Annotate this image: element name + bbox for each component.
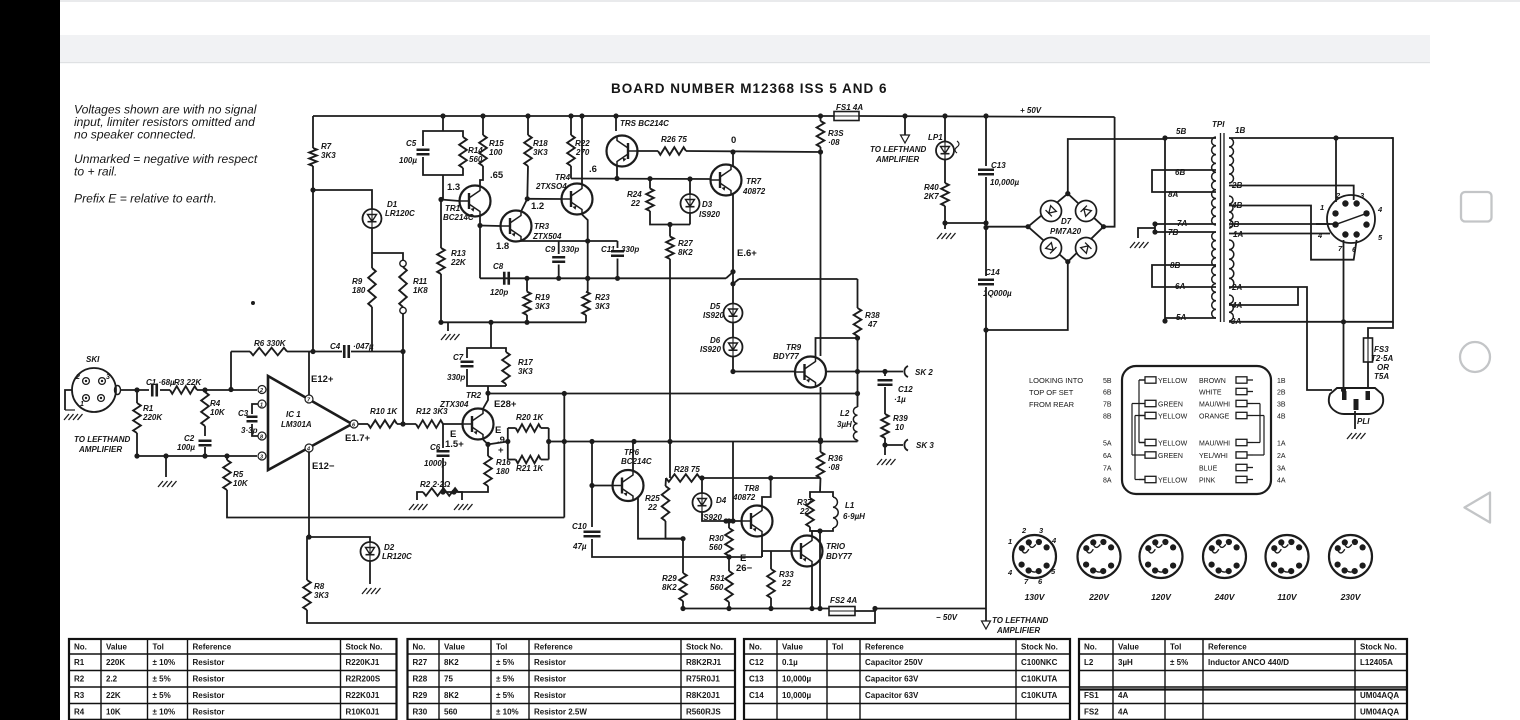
- svg-text:.65: .65: [490, 170, 504, 181]
- wire R36 to L1/R37: [819, 478, 822, 492]
- LP1 squiggle: [955, 141, 959, 153]
- svg-text:3A: 3A: [1277, 466, 1286, 473]
- transformer core: [1221, 133, 1225, 322]
- wire 0 node to TR7 collector: [732, 152, 734, 166]
- wire drive bus lower: [564, 441, 857, 443]
- wire junction: [505, 439, 510, 444]
- wire junction: [667, 222, 672, 227]
- svg-text:5: 5: [1051, 567, 1056, 576]
- wire 0 node down to TR9: [820, 152, 822, 356]
- SK1 pin dot: [100, 397, 102, 399]
- wire R38 to SK2 line: [857, 336, 859, 372]
- svg-text:5A: 5A: [1176, 313, 1186, 322]
- wire junction: [525, 196, 530, 201]
- svg-text:8A: 8A: [1168, 190, 1178, 199]
- svg-text:D2: D2: [384, 543, 395, 552]
- wire -50V rail left: [683, 608, 829, 610]
- selector plug pin 3: [1353, 200, 1359, 206]
- wire R39 to SK3: [884, 438, 886, 445]
- svg-text:Resistor: Resistor: [534, 675, 566, 684]
- inductor TP1 primary: [1212, 137, 1216, 318]
- wire junction: [1152, 229, 1157, 234]
- selector plug pin 7: [1342, 231, 1348, 237]
- svg-text:Stock No.: Stock No.: [346, 643, 383, 652]
- wire to feedback column: [549, 441, 565, 443]
- pot wiper top R11: [400, 260, 406, 266]
- svg-text:R29: R29: [413, 691, 428, 700]
- wire C1 to R3: [160, 389, 170, 391]
- svg-text:C13: C13: [991, 161, 1006, 170]
- wire rail to R35: [820, 116, 822, 121]
- svg-text:Reference: Reference: [534, 643, 573, 652]
- wire 1B down to plug pin2: [1335, 138, 1337, 202]
- svg-text:Resistor: Resistor: [534, 658, 566, 667]
- transistor TR2 ZTX304: [463, 409, 494, 440]
- wire feedback left: [231, 351, 250, 353]
- wire junction: [615, 276, 620, 281]
- svg-text:220K: 220K: [106, 658, 125, 667]
- resistor R5: [223, 460, 231, 490]
- svg-text:6·9µH: 6·9µH: [843, 512, 865, 521]
- wire junction: [579, 113, 584, 118]
- wire to TR3 base: [480, 225, 501, 228]
- svg-text:TO LEFTHAND: TO LEFTHAND: [74, 435, 131, 444]
- wire junction: [726, 606, 731, 611]
- wire junction: [983, 225, 988, 230]
- svg-text:3K3: 3K3: [314, 591, 329, 600]
- svg-text:C13: C13: [749, 675, 764, 684]
- resistor R19: [523, 292, 531, 315]
- wire junction: [817, 606, 822, 611]
- colour tab 7B: [1139, 400, 1156, 406]
- svg-text:0.1µ: 0.1µ: [782, 658, 798, 667]
- op-amp pin 3: [258, 452, 266, 460]
- svg-text:1: 1: [1008, 537, 1012, 546]
- capacitor C7: [461, 362, 474, 367]
- svg-text:TRS BC214C: TRS BC214C: [620, 119, 669, 128]
- wire junction: [546, 439, 551, 444]
- svg-text:1: 1: [260, 402, 263, 408]
- svg-text:Tol: Tol: [1170, 643, 1181, 652]
- wire D2 to ground: [369, 561, 371, 584]
- resistor R11: [399, 267, 407, 307]
- resistor R36: [817, 452, 825, 478]
- svg-text:R25: R25: [645, 494, 660, 503]
- svg-text:·1µ: ·1µ: [894, 395, 906, 404]
- svg-text:560: 560: [710, 583, 724, 592]
- wire: [541, 459, 549, 461]
- selector plug jumper: [1336, 213, 1367, 224]
- table resistors 1 grid: [69, 639, 397, 720]
- resistor R35: [817, 121, 825, 147]
- selector plug pin 1: [1332, 210, 1338, 216]
- wire to R37: [810, 492, 820, 498]
- svg-text:BDY77: BDY77: [773, 352, 799, 361]
- SK1 pin dot: [101, 380, 103, 382]
- svg-text:BOARD NUMBER M12368 ISS 5 AND: BOARD NUMBER M12368 ISS 5 AND 6: [611, 81, 888, 96]
- wire to R1: [136, 390, 138, 403]
- svg-text:2: 2: [75, 374, 80, 381]
- colour tab 5A: [1139, 439, 1156, 445]
- resistor R18: [524, 135, 532, 166]
- svg-text:L2: L2: [840, 409, 850, 418]
- arrow to lefthand amplifier bottom: [982, 621, 991, 629]
- ground mid: [441, 334, 460, 340]
- wire junction: [438, 320, 443, 325]
- svg-text:R19: R19: [535, 293, 550, 302]
- svg-text:Prefix E = relative to earth.: Prefix E = relative to earth.: [74, 192, 217, 206]
- wire to R36: [820, 440, 822, 452]
- svg-text:22: 22: [647, 503, 657, 512]
- wire junction: [568, 113, 573, 118]
- svg-text:− 50V: − 50V: [936, 613, 958, 622]
- wire D3 to TR7 base line: [689, 179, 691, 194]
- wire rail to TR4 collector: [581, 116, 583, 184]
- svg-text:± 5%: ± 5%: [153, 691, 171, 700]
- svg-text:YELLOW: YELLOW: [1158, 441, 1188, 448]
- wire C10 bottom to E26 node: [592, 539, 729, 557]
- wire D6 column down to TR8 base: [732, 442, 734, 522]
- wire junction: [855, 335, 860, 340]
- wire C12 to R39: [884, 387, 886, 414]
- wire to R5: [226, 456, 228, 460]
- svg-text:R27: R27: [678, 239, 693, 248]
- wire to R11 top: [372, 253, 403, 261]
- wire junction: [699, 475, 704, 480]
- wire E6 node to D5: [732, 284, 734, 304]
- wire junction: [310, 349, 315, 354]
- resistor R2: [423, 488, 458, 496]
- svg-text:E12+: E12+: [311, 374, 334, 385]
- wire junction: [306, 534, 311, 539]
- svg-text:R38: R38: [865, 311, 880, 320]
- svg-text:R2 2·2Ω: R2 2·2Ω: [420, 480, 451, 489]
- svg-text:Reference: Reference: [193, 643, 232, 652]
- svg-text:AMPLIFIER: AMPLIFIER: [78, 445, 122, 454]
- colour tab right 1A: [1236, 439, 1253, 445]
- svg-text:LM301A: LM301A: [281, 420, 312, 429]
- wire FS3 to PL1 right prong: [1367, 362, 1369, 388]
- wire R38 node down: [857, 372, 859, 394]
- wire D3 bottom: [689, 214, 691, 225]
- svg-text:130V: 130V: [1025, 592, 1046, 602]
- wire to -50V rail: [819, 531, 821, 609]
- svg-text:T5A: T5A: [1374, 372, 1389, 381]
- wire TR10 emitter to rail: [811, 566, 813, 609]
- wire to R37/L1 top: [771, 477, 821, 479]
- svg-text:3: 3: [260, 454, 263, 460]
- resistor R6: [250, 348, 287, 356]
- svg-text:Resistor: Resistor: [193, 708, 225, 717]
- svg-text:22: 22: [781, 579, 791, 588]
- capacitor C8: [504, 272, 509, 285]
- wire to C7: [467, 348, 487, 358]
- wire D4 to TR8 base: [702, 512, 741, 521]
- wire R24/D3 join: [650, 211, 690, 225]
- wire 1A to plug: [1326, 233, 1330, 235]
- connector SK1: [72, 368, 116, 412]
- svg-text:1.5+: 1.5+: [445, 439, 464, 450]
- wire junction: [983, 220, 988, 225]
- wire junction: [1065, 259, 1070, 264]
- diode D1 LR120C: [363, 209, 382, 228]
- transistor TR7 40872: [711, 165, 742, 196]
- svg-text:R28: R28: [413, 675, 428, 684]
- wire junction: [983, 113, 988, 118]
- wire C5 bottom: [423, 157, 443, 175]
- svg-text:BROWN: BROWN: [1199, 378, 1226, 385]
- svg-text:1.2: 1.2: [531, 201, 544, 212]
- wire C4 to feedback node: [351, 351, 403, 353]
- wire TR1 base to R13: [440, 200, 442, 249]
- svg-text:R17: R17: [518, 358, 533, 367]
- SK1 pin: [83, 395, 90, 402]
- svg-text:LR120C: LR120C: [385, 209, 415, 218]
- wire top rail left of FS1: [313, 115, 834, 117]
- svg-text:4B: 4B: [1277, 414, 1286, 421]
- wire junction: [855, 369, 860, 374]
- transistor TR10 BDY77: [792, 536, 823, 567]
- svg-text:FS1 4A: FS1 4A: [836, 103, 863, 112]
- wire to TR6 base: [592, 485, 612, 487]
- wire junction: [613, 113, 618, 118]
- svg-text:Resistor: Resistor: [193, 658, 225, 667]
- wire junction: [680, 606, 685, 611]
- colour box links right: [1253, 404, 1264, 456]
- wire TR5 emitter down: [616, 166, 618, 179]
- svg-text:R560RJS: R560RJS: [686, 708, 721, 717]
- svg-text:FS2: FS2: [1084, 708, 1099, 717]
- svg-text:T2·5A: T2·5A: [1371, 354, 1393, 363]
- wire rail to R15: [482, 116, 484, 135]
- resistor R9: [368, 268, 376, 307]
- wire R26 to 0 node: [686, 151, 821, 152]
- wire bridge top-left diagonal: [1028, 194, 1068, 227]
- wire to D2: [309, 537, 370, 542]
- svg-text:Capacitor 250V: Capacitor 250V: [865, 658, 923, 667]
- wire junction: [202, 453, 207, 458]
- wire R17 bottom: [505, 384, 507, 386]
- wire junction: [477, 223, 482, 228]
- wire C2 to ground bus: [204, 447, 206, 456]
- wire junction: [440, 489, 445, 494]
- wire rail to R18: [527, 116, 529, 135]
- wire E26 node: [729, 556, 762, 558]
- wire ground bus / pin3: [137, 455, 257, 457]
- capacitor C12: [878, 380, 893, 385]
- svg-text:L1: L1: [845, 501, 855, 510]
- svg-text:10,000µ: 10,000µ: [990, 178, 1019, 187]
- svg-text:R15: R15: [489, 139, 504, 148]
- svg-text:R3 22K: R3 22K: [174, 378, 202, 387]
- svg-text:·08: ·08: [828, 138, 840, 147]
- wire junction: [202, 387, 207, 392]
- svg-text:WHITE: WHITE: [1199, 390, 1222, 397]
- svg-text:D5: D5: [710, 302, 721, 311]
- wire to R27: [669, 225, 671, 237]
- wire: [541, 427, 549, 429]
- svg-text:560: 560: [709, 543, 723, 552]
- svg-text:TPI: TPI: [1212, 120, 1225, 129]
- svg-text:C14: C14: [985, 268, 1000, 277]
- wire base node to C6: [442, 424, 444, 448]
- svg-text:TR7: TR7: [746, 177, 762, 186]
- svg-text:230V: 230V: [1340, 592, 1362, 602]
- svg-text:C11: C11: [601, 245, 616, 254]
- svg-text:100µ: 100µ: [399, 156, 417, 165]
- wire R18 to TR3/TR4 node: [526, 166, 529, 199]
- svg-text:4: 4: [1007, 568, 1013, 577]
- wire to lefthand amp bottom: [985, 609, 987, 622]
- wire right rail to FS3: [1368, 322, 1393, 338]
- svg-text:2: 2: [259, 388, 263, 394]
- transistor TR8 40872: [742, 506, 773, 537]
- wire 2B line to plug pin3: [1229, 186, 1354, 201]
- svg-text:1Q000µ: 1Q000µ: [983, 289, 1012, 298]
- wire to lefthand amp top: [904, 116, 906, 135]
- voltage selector 120V: [1140, 535, 1183, 578]
- svg-text:R9: R9: [352, 277, 363, 286]
- wire junction: [310, 187, 315, 192]
- svg-text:4: 4: [1377, 205, 1383, 214]
- transistor TR9 BDY77: [795, 357, 826, 388]
- wire D6 down: [732, 356, 734, 372]
- svg-text:± 5%: ± 5%: [1170, 658, 1188, 667]
- resistor R27: [666, 237, 674, 260]
- svg-text:10K: 10K: [210, 408, 226, 417]
- svg-text:No.: No.: [749, 643, 762, 652]
- wire pin6 out: [358, 423, 368, 425]
- resistor R39: [881, 414, 889, 438]
- wire junction: [768, 606, 773, 611]
- svg-text:6A: 6A: [1103, 453, 1112, 460]
- colour tab right 4B: [1236, 412, 1253, 418]
- svg-text:R30: R30: [413, 708, 428, 717]
- svg-text:3K3: 3K3: [321, 151, 336, 160]
- capacitor C13: [978, 170, 994, 175]
- wire junction: [228, 387, 233, 392]
- resistor R26: [658, 147, 686, 155]
- svg-text:TR6: TR6: [624, 448, 640, 457]
- capacitor C1: [152, 384, 157, 397]
- wire junction: [723, 518, 728, 523]
- wire D5 to D6: [732, 322, 734, 338]
- resistor R23: [582, 292, 590, 315]
- wire to R33: [770, 551, 772, 569]
- capacitor C10: [584, 532, 601, 537]
- pot wiper bottom R11: [400, 307, 406, 313]
- svg-text:1: 1: [80, 401, 84, 408]
- wire rail to C13: [985, 116, 987, 166]
- svg-text:AMPLIFIER: AMPLIFIER: [996, 626, 1040, 635]
- wire R6 to C4: [287, 351, 342, 353]
- wire center tap gnd: [1138, 228, 1155, 238]
- svg-text:R7: R7: [321, 142, 332, 151]
- wire junction: [1341, 319, 1346, 324]
- resistor R3: [170, 386, 197, 394]
- svg-text:IS920: IS920: [703, 311, 724, 320]
- svg-text:Tol: Tol: [496, 643, 507, 652]
- wire 5A tap: [1165, 317, 1216, 319]
- colour tab right 1B: [1236, 377, 1253, 383]
- svg-text:26−: 26−: [736, 563, 753, 574]
- ground under SK1: [64, 414, 83, 420]
- resistor R29: [679, 573, 687, 601]
- wire pin7 to rail: [308, 352, 310, 396]
- svg-text:C12: C12: [898, 385, 913, 394]
- svg-text:47µ: 47µ: [572, 542, 587, 551]
- svg-text:OR: OR: [1377, 363, 1389, 372]
- wire bridge left node to C13/C14: [986, 226, 1028, 228]
- svg-text:R22K0J1: R22K0J1: [346, 691, 380, 700]
- resistor R30: [725, 528, 733, 556]
- wire TR5 base to R26: [638, 150, 658, 152]
- capacitor C6: [437, 451, 450, 456]
- wire junction: [809, 606, 814, 611]
- svg-text:D1: D1: [387, 200, 398, 209]
- svg-text:22K: 22K: [106, 691, 121, 700]
- wire R4 to C2: [204, 426, 206, 436]
- svg-text:2K7: 2K7: [923, 192, 939, 201]
- svg-text:TR4: TR4: [555, 173, 571, 182]
- svg-text:L12405A: L12405A: [1360, 658, 1393, 667]
- wire TR3 collector: [521, 199, 527, 212]
- printed speck: [251, 301, 255, 305]
- wire to R33/TR10: [762, 551, 771, 557]
- wire .6 line TR5 emitter to TR7 base: [571, 178, 710, 181]
- ground near C2: [158, 481, 177, 487]
- svg-text:C8: C8: [493, 262, 504, 271]
- resistor R38: [854, 308, 862, 336]
- wire junction: [488, 320, 493, 325]
- wire bus to C7/R17: [490, 322, 492, 348]
- svg-text:Resistor: Resistor: [534, 691, 566, 700]
- svg-text:R28 75: R28 75: [674, 465, 700, 474]
- wire R9 bottom to feedback line: [371, 307, 373, 351]
- ground R2 left: [409, 504, 428, 510]
- wire rail to LP1: [944, 116, 946, 142]
- svg-text:R220KJ1: R220KJ1: [346, 658, 380, 667]
- wire 3B line to plug: [1229, 224, 1336, 226]
- wire to C5 branch: [423, 131, 443, 146]
- svg-text:4A: 4A: [1118, 691, 1128, 700]
- wire bus corner to R38: [857, 279, 859, 308]
- svg-text:R23: R23: [595, 293, 610, 302]
- svg-text:Value: Value: [444, 643, 465, 652]
- colour tab right 3A: [1236, 464, 1253, 470]
- colour code box: [1122, 366, 1271, 494]
- resistor R8: [303, 580, 311, 610]
- svg-text:± 10%: ± 10%: [153, 658, 176, 667]
- colour tab 8A: [1139, 476, 1156, 482]
- resistor R4: [201, 392, 209, 426]
- op-amp pin 1: [258, 400, 266, 408]
- SK1 keyway: [115, 386, 121, 395]
- svg-text:GREEN: GREEN: [1158, 453, 1183, 460]
- capacitor C14: [978, 280, 994, 285]
- wire TR10 collector up: [812, 531, 820, 536]
- wire ground stem: [165, 456, 167, 477]
- svg-text:10,000µ: 10,000µ: [782, 691, 811, 700]
- svg-text:± 10%: ± 10%: [153, 708, 176, 717]
- wire to R24: [649, 179, 651, 189]
- svg-text:3µH: 3µH: [1118, 658, 1133, 667]
- svg-text:Stock No.: Stock No.: [1021, 643, 1058, 652]
- svg-text:2: 2: [1021, 526, 1027, 535]
- wire TR8 base to R30: [728, 521, 730, 528]
- wire rail to TR5: [615, 116, 617, 131]
- table misc grid: [1079, 639, 1407, 720]
